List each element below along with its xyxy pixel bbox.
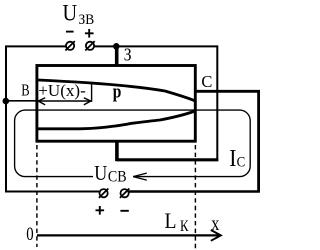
svg-text:0: 0 [26,224,33,245]
wire: В lead into channel [6,100,37,102]
wire: top-right (U_ЗВ plus terminal to right gate rail) [94,46,217,158]
terminal: U_ЗВ left (minus) [65,41,74,50]
svg-text:U: U [63,1,78,26]
wire: bottom gate wire (bottom stub to right gate rail) [117,158,218,161]
label: plus sign above right terminal [85,29,94,38]
label: minus sign above left terminal [66,31,74,33]
terminal: U_СВ left (plus) [99,189,108,198]
svg-text:С: С [237,154,246,170]
svg-text:C: C [201,72,212,91]
svg-text:L: L [165,208,177,233]
wire: bottom right (right rail to U_СВ right terminal) [129,190,260,193]
svg-text:К: К [180,218,189,235]
junction dot: gate node on top wire [113,43,120,50]
mask under U_СВ label [93,171,133,183]
svg-text:U: U [94,162,107,185]
svg-text:I: I [229,146,236,172]
svg-text:СВ: СВ [108,169,127,186]
label: minus sign below right terminal [120,210,128,212]
depletion boundary: bottom curve [38,111,195,129]
node line: dashed drop at x=0 (source edge) [36,145,38,247]
channel body box [37,66,195,142]
bracket tick at x position [91,85,93,102]
svg-text:x: x [211,211,219,235]
wire: top-left loop (U_ЗВ minus terminal to left rail down to bottom wire) [6,46,99,191]
depletion boundary: top curve [38,80,195,101]
arrowhead: current direction on loop bottom [133,173,147,180]
gate stub: top gate contact З [115,46,119,67]
axis: x axis line [37,234,220,236]
svg-text:p: p [113,81,122,102]
svg-text:З: З [124,44,132,64]
dimension arrow U(x): double-headed [38,85,91,105]
node line: dashed drop at x=L_К (drain edge) [194,145,196,249]
gate stub: bottom gate contact [115,140,119,161]
label: plus sign below left terminal [96,206,105,215]
terminal: U_ЗВ right (plus) [85,41,94,50]
terminal: U_СВ right (minus) [120,189,129,198]
wire: drain thick bar and right outer rail [196,91,259,191]
svg-text:В: В [21,81,29,100]
junction dot: В node on left rail [3,98,10,105]
svg-text:+U(x)-: +U(x)- [38,81,86,100]
arrowhead: x axis [211,230,221,241]
current flow loop I_С (thin rounded contour through channel) [15,110,251,177]
svg-text:ЗВ: ЗВ [79,12,95,28]
